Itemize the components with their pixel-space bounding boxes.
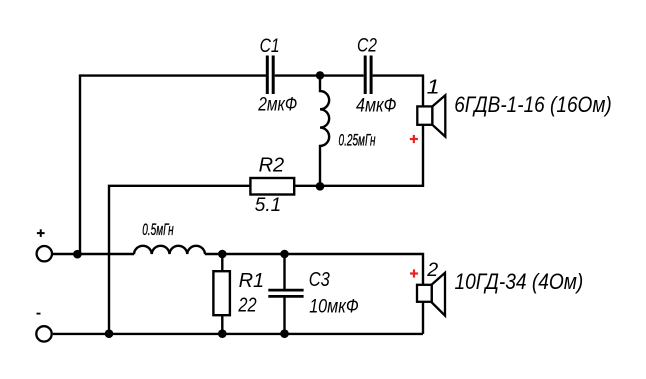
wire: speaker 1 bottom lead and R2 row right segment <box>294 122 423 186</box>
svg-text:0.5мГн: 0.5мГн <box>142 220 174 239</box>
svg-text:22: 22 <box>238 294 257 316</box>
wire: R1 bottom lead <box>221 313 223 334</box>
capacitor C1 plates <box>267 56 273 95</box>
wire: top rail between C1 and C2 <box>275 74 364 76</box>
label: speaker 2 plus polarity <box>410 269 418 277</box>
svg-text:4мкФ: 4мкФ <box>356 96 397 117</box>
wire: R2 row left segment and R2 return vertical <box>109 186 251 334</box>
wire: input plus riser and top rail left segment <box>80 76 266 254</box>
resistor R1 body <box>213 271 230 315</box>
svg-text:10ГД-34 (4Ом): 10ГД-34 (4Ом) <box>455 269 584 294</box>
node: junction top rail / L1 <box>316 71 324 79</box>
node: junction R2 row / L1 <box>316 182 325 191</box>
svg-text:R2: R2 <box>259 155 285 177</box>
wire: speaker 2 bottom lead <box>422 300 424 334</box>
svg-text:1: 1 <box>427 75 440 98</box>
speaker 2 cone <box>432 273 445 316</box>
wire: middle rail from coil L2 to speaker 2 top lead <box>205 254 423 287</box>
svg-text:2мкФ: 2мкФ <box>257 95 297 116</box>
capacitor C3 plates <box>268 290 303 296</box>
svg-text:2: 2 <box>426 259 438 281</box>
label: plus sign at input <box>37 229 45 237</box>
terminal: minus input <box>36 326 51 341</box>
speaker 2 body <box>417 285 432 302</box>
wire: plus input lead to coil L2 <box>53 253 135 255</box>
node: junction middle rail / C3 <box>280 250 289 259</box>
wire: C3 top lead <box>283 254 285 289</box>
speaker 1 body <box>417 106 432 124</box>
svg-text:0.25мГн: 0.25мГн <box>339 131 376 150</box>
speaker 1 cone <box>432 95 445 136</box>
node: junction bottom rail / C3 <box>280 329 289 338</box>
svg-text:5.1: 5.1 <box>255 195 281 216</box>
resistor R2 body <box>250 178 294 195</box>
svg-text:C3: C3 <box>309 269 330 291</box>
wire: top rail right segment and speaker 1 top lead <box>373 76 423 109</box>
node: junction bottom rail / R1 <box>218 329 227 338</box>
svg-text:R1: R1 <box>239 270 265 292</box>
label: minus sign at input <box>37 313 41 315</box>
terminal: plus input <box>37 246 52 261</box>
wire: bottom rail from minus input to speaker 2 <box>53 333 423 335</box>
wire: R1 top lead <box>221 254 223 274</box>
wire: C3 bottom lead <box>283 298 285 334</box>
capacitor C2 plates <box>365 56 371 95</box>
inductor L2 0.5mH horizontal coil <box>134 246 205 254</box>
label: speaker 1 plus polarity <box>410 135 418 143</box>
node: junction middle rail / R1 <box>218 250 227 259</box>
node: junction bottom rail / R2 return <box>105 329 114 338</box>
svg-text:6ГДВ-1-16 (16Ом): 6ГДВ-1-16 (16Ом) <box>454 92 612 117</box>
inductor L1 0.25mH vertical coil <box>320 76 329 186</box>
svg-text:C1: C1 <box>260 36 280 57</box>
node: junction plus input riser <box>73 250 82 259</box>
svg-text:10мкФ: 10мкФ <box>309 297 359 318</box>
svg-text:C2: C2 <box>357 36 377 57</box>
